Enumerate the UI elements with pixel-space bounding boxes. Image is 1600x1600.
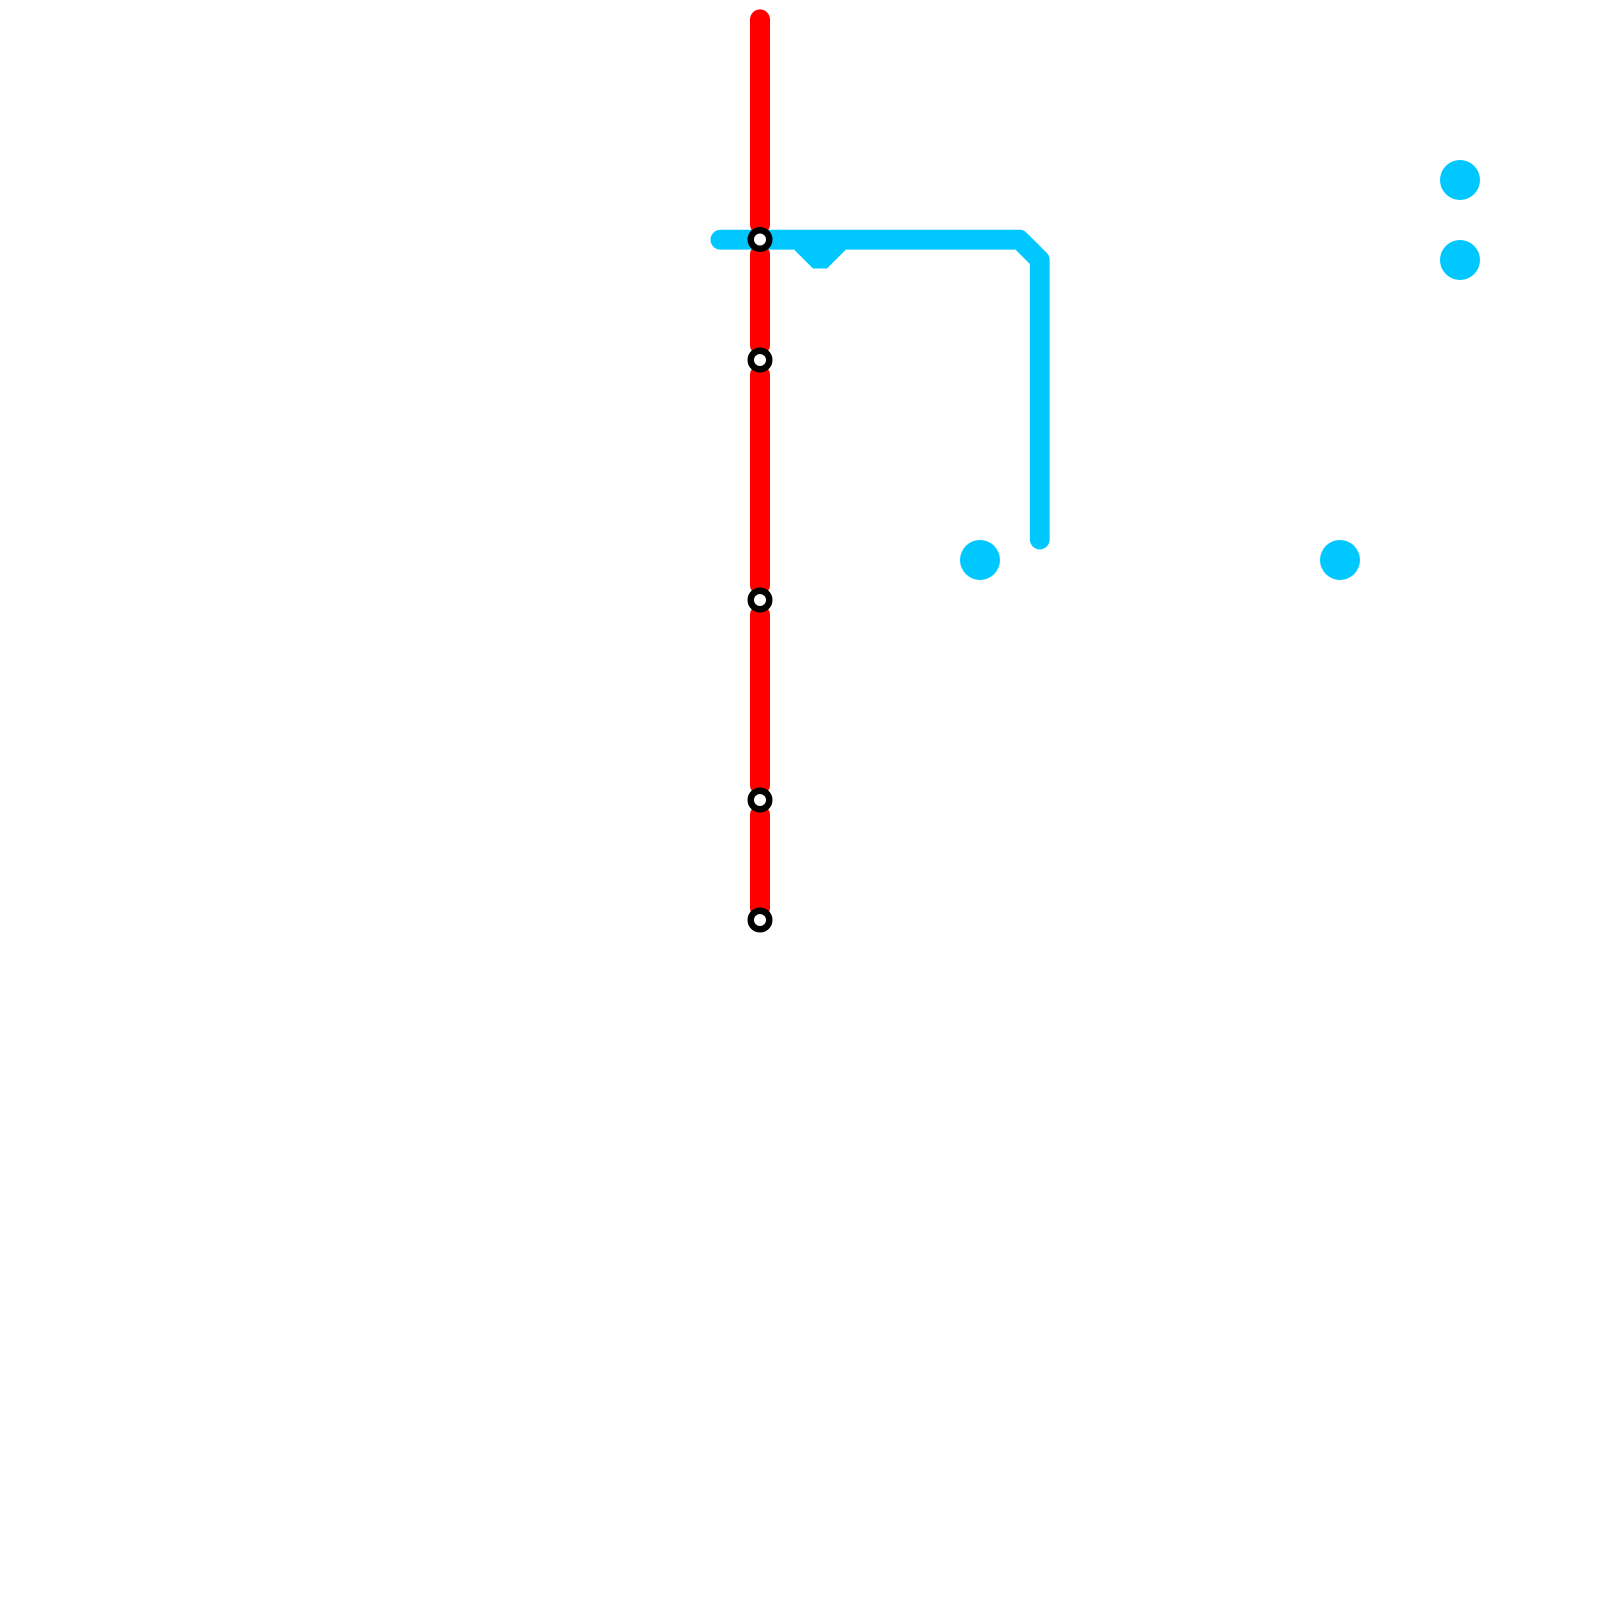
cyan V notch below horizontal: [800, 242, 840, 262]
cyan dot right: [1320, 540, 1360, 580]
red line segment top (above station 1): [750, 19, 770, 224]
cyan dot upper right 1: [1440, 160, 1480, 200]
cyan line main (horizontal, 45-degree corner, vertical): [720, 240, 1039, 540]
station 4: [751, 791, 770, 810]
red line segment 3 (station 2 to station 3): [750, 375, 770, 585]
red line segment 4 (station 3 to station 4): [750, 615, 770, 785]
station 5 (red line terminus): [751, 911, 770, 930]
station 3: [751, 591, 770, 610]
cyan dot upper right 2: [1440, 240, 1480, 280]
red line segment 5 (station 4 to station 5): [750, 815, 770, 908]
cyan dot center: [960, 540, 1000, 580]
station 1 (interchange on red at cyan crossing): [751, 230, 770, 249]
station 2: [751, 351, 770, 370]
red line segment 2 (station 1 to station 2): [750, 255, 770, 346]
